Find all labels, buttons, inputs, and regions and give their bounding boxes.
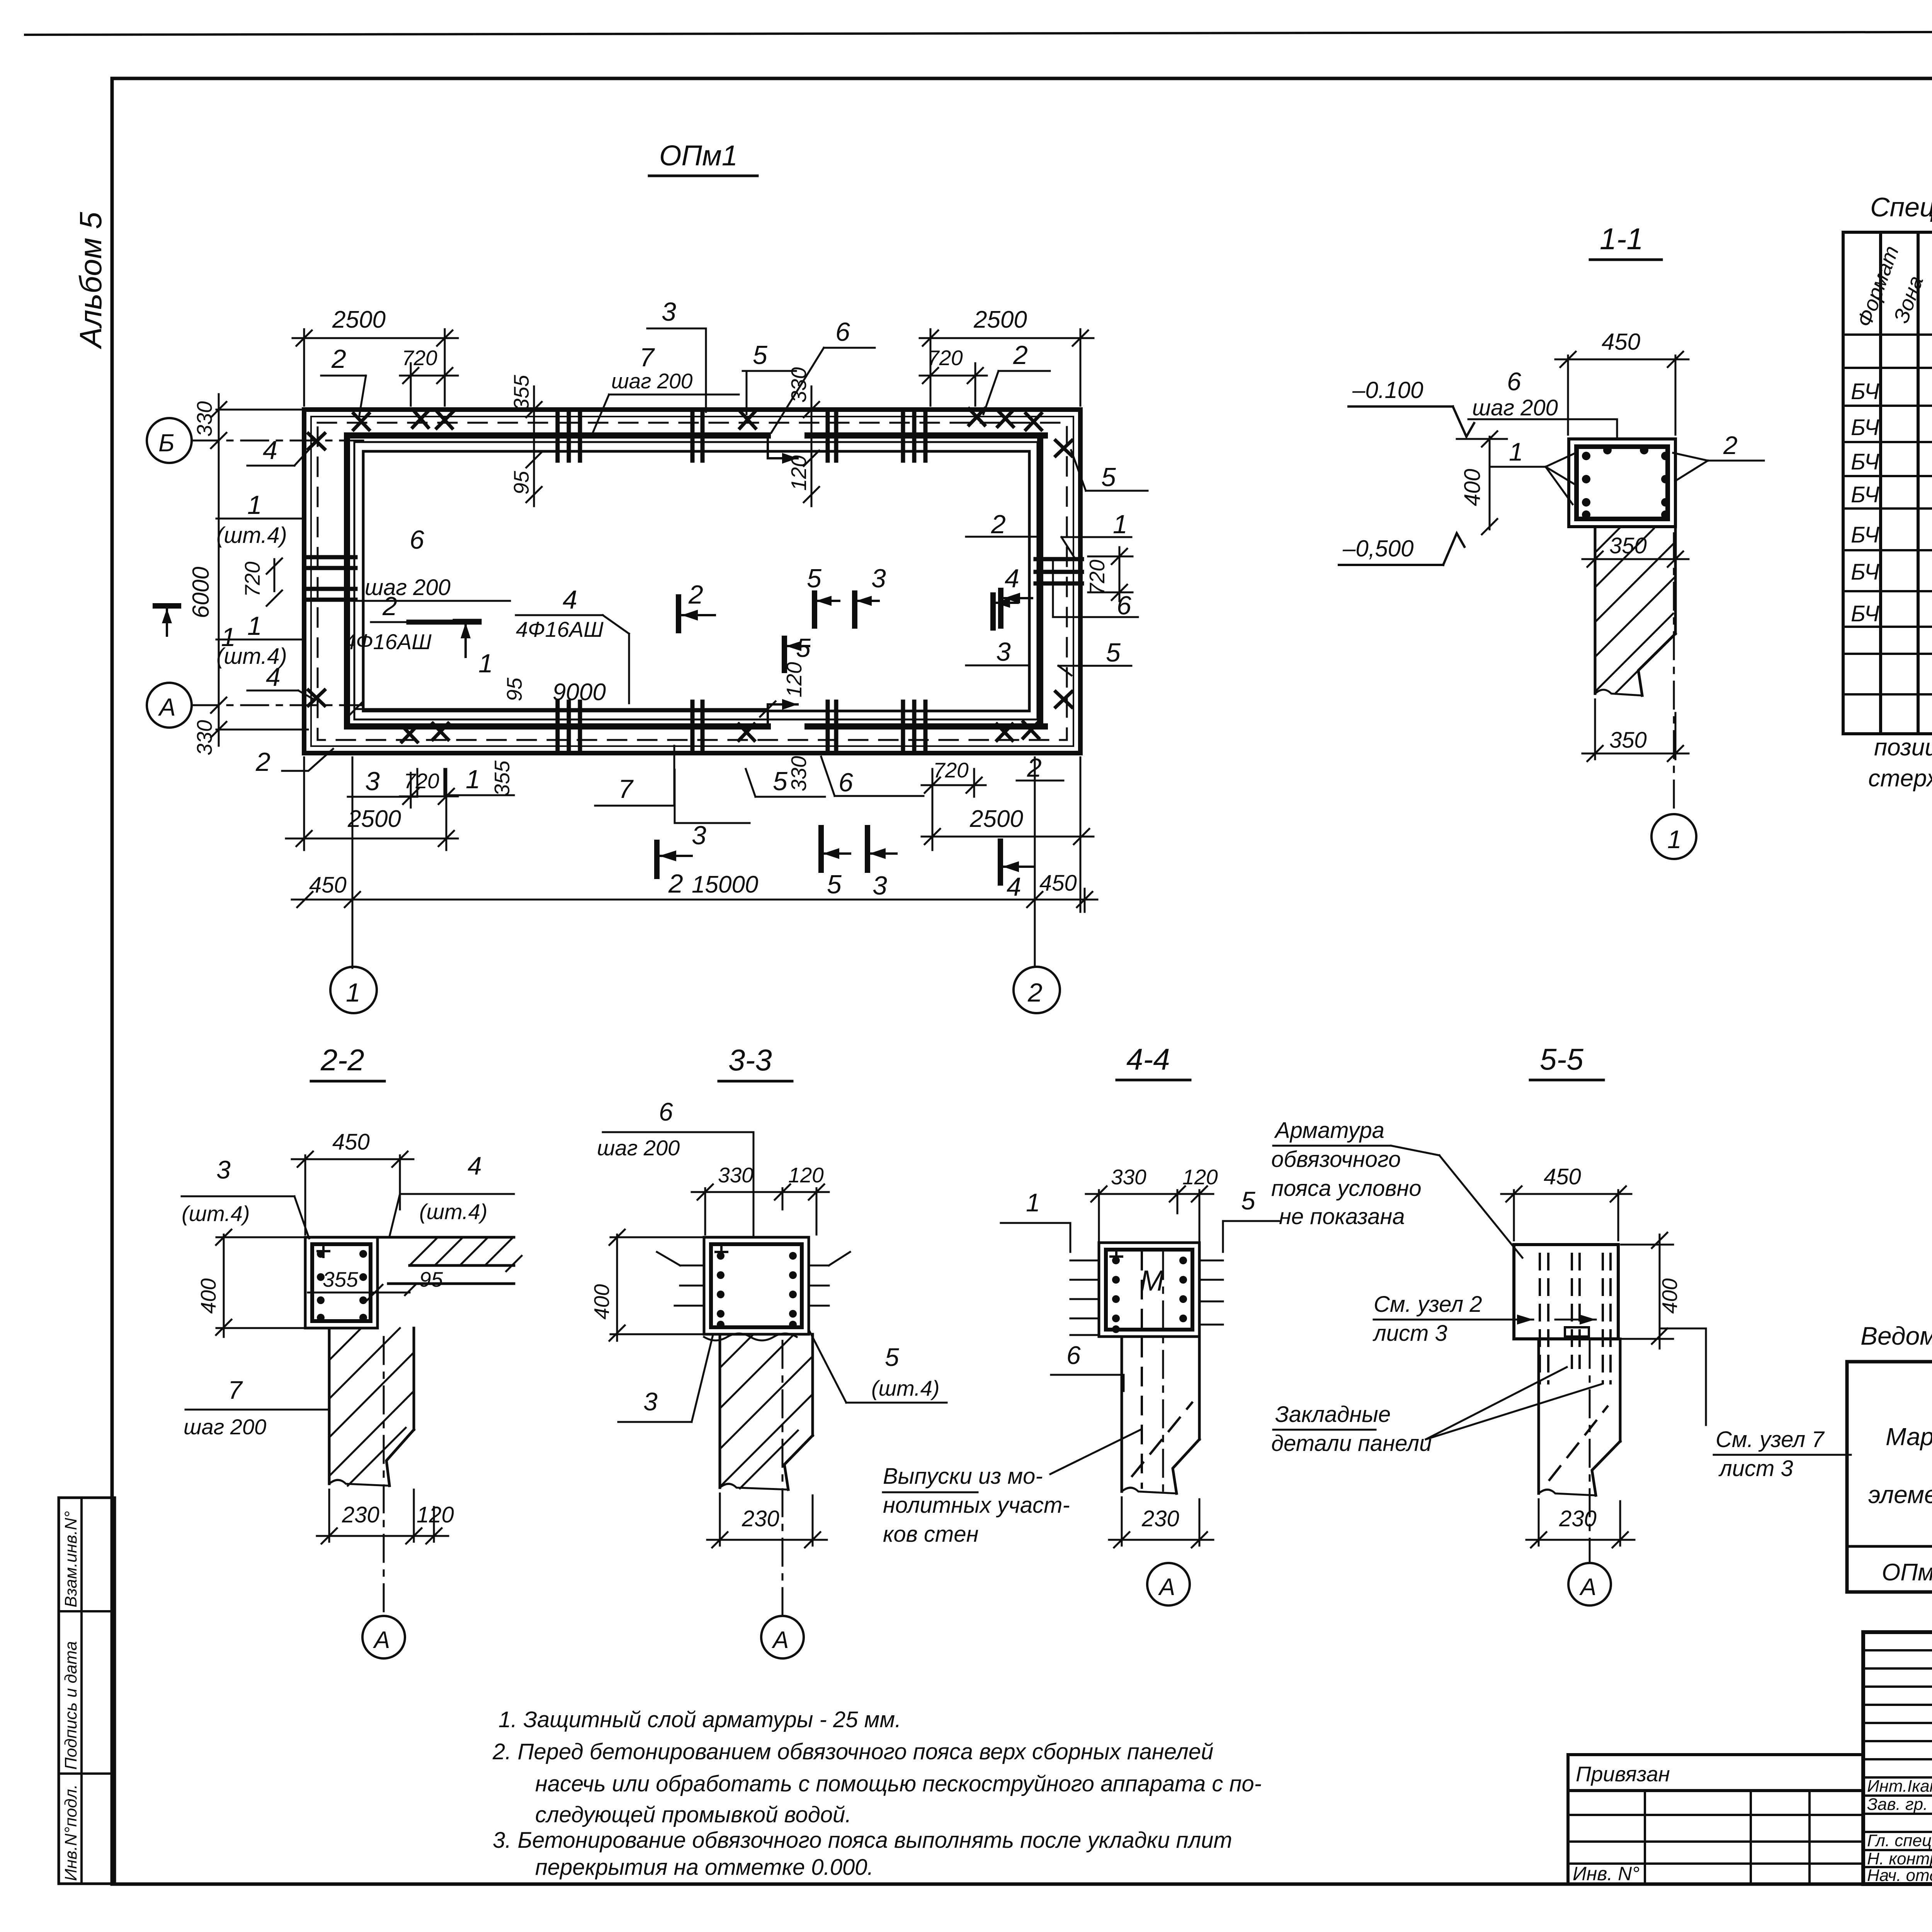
short bar symbol near label2 xyxy=(409,620,479,625)
svg-text:1: 1 xyxy=(466,765,480,794)
svg-text:ков стен: ков стен xyxy=(883,1522,979,1547)
svg-text:2: 2 xyxy=(688,580,703,609)
svg-text:Подпись и дата: Подпись и дата xyxy=(61,1641,80,1770)
svg-text:шаг 200: шаг 200 xyxy=(1472,395,1558,420)
svg-text:5-5: 5-5 xyxy=(1540,1042,1583,1076)
svg-text:(шт.4): (шт.4) xyxy=(871,1376,940,1400)
svg-text:–0,500: –0,500 xyxy=(1342,536,1414,561)
svg-text:6: 6 xyxy=(835,317,850,347)
svg-text:1: 1 xyxy=(221,622,236,652)
svg-text:не показана: не показана xyxy=(1279,1204,1405,1229)
svg-text:2500: 2500 xyxy=(332,306,386,333)
svg-text:–0.100: –0.100 xyxy=(1352,377,1423,403)
svg-text:330: 330 xyxy=(192,401,216,437)
spec rows xyxy=(1851,378,1932,626)
svg-text:7: 7 xyxy=(618,774,634,804)
bottom callouts below plan xyxy=(348,746,923,823)
svg-text:1: 1 xyxy=(346,978,361,1007)
ext lines top xyxy=(303,329,305,406)
axis A dashdot xyxy=(192,704,363,706)
svg-text:7: 7 xyxy=(639,343,655,372)
dim 230 xyxy=(707,1493,827,1548)
svg-text:2: 2 xyxy=(1013,340,1028,370)
svg-text:330: 330 xyxy=(787,756,811,791)
svg-text:95: 95 xyxy=(502,677,526,701)
dim 15000/450 line xyxy=(292,899,1097,901)
svg-text:элемента: элемента xyxy=(1868,1481,1932,1509)
svg-text:5: 5 xyxy=(885,1343,899,1371)
svg-text:3: 3 xyxy=(872,871,887,900)
svg-text:Взам.инв.N°: Взам.инв.N° xyxy=(61,1511,80,1607)
svg-text:следующей промывкой водой.: следующей промывкой водой. xyxy=(535,1802,851,1827)
svg-text:720: 720 xyxy=(1085,560,1109,595)
wall below 3-3 xyxy=(720,1334,813,1490)
svg-text:1: 1 xyxy=(247,611,262,641)
svg-text:Арматура: Арматура xyxy=(1274,1118,1384,1143)
dim 720 bottom-left xyxy=(400,796,458,798)
svg-text:120: 120 xyxy=(788,1163,824,1187)
dims 330 120 xyxy=(1086,1186,1213,1240)
label 6 shag 200 xyxy=(1468,419,1617,439)
slab right xyxy=(378,1237,514,1284)
dim 400 vertical right xyxy=(1621,1233,1673,1349)
section square 5-5 xyxy=(1514,1245,1618,1339)
svg-text:450: 450 xyxy=(309,872,347,898)
svg-text:350: 350 xyxy=(1609,728,1647,753)
stirrup ticks top band xyxy=(558,412,925,461)
section square 4-4 xyxy=(1099,1243,1199,1337)
svg-text:ОПм1: ОПм1 xyxy=(1882,1559,1932,1586)
svg-text:450: 450 xyxy=(1039,871,1077,896)
dim 2500 top-left xyxy=(293,337,458,339)
svg-text:Инт.Iкат: Инт.Iкат xyxy=(1867,1777,1932,1796)
svg-text:Нач. отд.: Нач. отд. xyxy=(1867,1866,1932,1885)
ring beam outer double line xyxy=(311,417,1073,746)
svg-text:450: 450 xyxy=(1544,1164,1581,1189)
svg-text:2: 2 xyxy=(331,344,346,374)
svg-text:330: 330 xyxy=(787,367,811,403)
ring beam outer edge xyxy=(304,410,1080,753)
axis to circle 1 xyxy=(1673,533,1675,813)
dim 720 top-left xyxy=(400,375,458,377)
svg-text:720: 720 xyxy=(933,758,969,782)
svg-text:15000: 15000 xyxy=(692,871,758,898)
beam inner edge second line xyxy=(363,451,1029,711)
stirrup ticks left band xyxy=(306,557,355,600)
svg-text:Зав. гр.: Зав. гр. xyxy=(1867,1795,1928,1814)
svg-text:2500: 2500 xyxy=(973,306,1027,333)
side leader lines xyxy=(657,1252,850,1306)
svg-text:5: 5 xyxy=(1101,463,1116,492)
svg-text:БЧ: БЧ xyxy=(1851,522,1879,548)
svg-text:См. узел 2: См. узел 2 xyxy=(1374,1292,1482,1317)
label 1 left xyxy=(1492,453,1576,504)
svg-text:Спецификация обвязочного п: Спецификация обвязочного пояса ОПм1 xyxy=(1870,192,1932,222)
svg-text:См. узел 7: См. узел 7 xyxy=(1716,1427,1825,1452)
rebar splice jog top xyxy=(768,435,798,458)
hatching xyxy=(1595,527,1675,694)
svg-text:пояса условно: пояса условно xyxy=(1271,1176,1422,1201)
svg-text:(шт.4): (шт.4) xyxy=(182,1201,250,1226)
rotated col headers xyxy=(1852,243,1932,330)
paper top edge xyxy=(25,31,1932,35)
stirrup ticks bottom band xyxy=(558,702,925,751)
dim 400 vertical xyxy=(216,1230,305,1337)
svg-text:400: 400 xyxy=(1658,1278,1682,1314)
svg-text:шаг 200: шаг 200 xyxy=(184,1415,266,1439)
svg-text:шаг 200: шаг 200 xyxy=(365,575,451,600)
svg-text:Гл. спец.: Гл. спец. xyxy=(1867,1831,1932,1850)
svg-text:4: 4 xyxy=(563,585,577,614)
svg-text:5: 5 xyxy=(753,340,767,370)
svg-text:450: 450 xyxy=(1602,329,1640,355)
svg-text:лист 3: лист 3 xyxy=(1718,1456,1793,1481)
dashed rebar contour xyxy=(318,423,1067,740)
dim 230 xyxy=(1109,1497,1213,1548)
svg-text:Выпуски из мо-: Выпуски из мо- xyxy=(883,1464,1043,1489)
svg-text:400: 400 xyxy=(196,1278,220,1314)
bar anchor X marks xyxy=(308,409,1072,742)
svg-text:5: 5 xyxy=(1106,638,1121,667)
svg-text:1: 1 xyxy=(478,649,493,678)
wall below 2-2 xyxy=(329,1328,414,1486)
svg-text:6: 6 xyxy=(1507,367,1521,396)
svg-text:ОПм1: ОПм1 xyxy=(659,139,738,172)
svg-text:Закладные: Закладные xyxy=(1275,1402,1391,1427)
axis B dashdot xyxy=(192,440,363,442)
heavy rebar chord right xyxy=(1037,435,1043,726)
note sm uzel 7 xyxy=(1662,1328,1706,1425)
dim 400 vertical xyxy=(1482,431,1497,534)
bar mark 2 with 4f16 xyxy=(344,525,606,706)
svg-text:3-3: 3-3 xyxy=(728,1043,772,1077)
svg-text:1: 1 xyxy=(1509,437,1523,466)
svg-text:230: 230 xyxy=(742,1506,779,1531)
signatures names xyxy=(1867,1777,1932,1885)
svg-text:БЧ: БЧ xyxy=(1851,379,1879,404)
heavy rebar chord top xyxy=(347,432,768,439)
svg-text:1: 1 xyxy=(1026,1188,1040,1217)
svg-text:нолитных участ-: нолитных участ- xyxy=(883,1493,1070,1518)
svg-text:720: 720 xyxy=(404,769,439,793)
svg-text:120: 120 xyxy=(782,662,806,697)
svg-text:А: А xyxy=(372,1627,390,1653)
svg-text:Привязан: Привязан xyxy=(1576,1762,1670,1786)
svg-text:4: 4 xyxy=(263,435,277,465)
svg-text:2: 2 xyxy=(1027,978,1043,1007)
svg-text:М: М xyxy=(1140,1264,1164,1297)
svg-text:обвязочного: обвязочного xyxy=(1271,1147,1401,1172)
svg-text:3: 3 xyxy=(643,1387,658,1416)
svg-text:3: 3 xyxy=(365,767,380,796)
svg-text:450: 450 xyxy=(332,1129,370,1155)
svg-text:3: 3 xyxy=(216,1155,231,1184)
svg-text:4: 4 xyxy=(1005,564,1019,593)
svg-text:6: 6 xyxy=(1117,591,1131,620)
heavy rebar chord bottom xyxy=(347,723,768,730)
svg-text:Марка: Марка xyxy=(1886,1423,1932,1451)
svg-text:перекрытия на отметке 0.000: перекрытия на отметке 0.000. xyxy=(535,1855,874,1880)
svg-text:2500: 2500 xyxy=(969,806,1023,832)
svg-text:2: 2 xyxy=(668,869,683,898)
dim 400 vertical xyxy=(609,1230,704,1341)
beam cross-section square xyxy=(1569,439,1675,527)
dim 720 top-right xyxy=(920,375,987,377)
wall below 4-4 xyxy=(1122,1337,1199,1493)
dim 450 xyxy=(1555,352,1689,435)
svg-text:3: 3 xyxy=(871,564,886,593)
svg-text:БЧ: БЧ xyxy=(1851,449,1879,474)
svg-text:А: А xyxy=(1579,1574,1596,1600)
bottom callout 2r underline xyxy=(1017,780,1063,782)
svg-text:4: 4 xyxy=(266,662,281,692)
svg-text:330: 330 xyxy=(1111,1165,1146,1189)
svg-text:Ведомость расхода стали на: Ведомость расхода стали на элемент, кг xyxy=(1861,1321,1932,1350)
svg-text:355: 355 xyxy=(490,760,514,796)
svg-text:А: А xyxy=(1158,1574,1175,1600)
dim 450 xyxy=(292,1151,413,1235)
axis circle A xyxy=(383,1337,385,1615)
embedded dashed bars xyxy=(1540,1254,1611,1383)
wall below 5-5 xyxy=(1539,1339,1620,1495)
svg-text:шаг 200: шаг 200 xyxy=(611,369,693,393)
svg-text:стержней на данном листе.: стержней на данном листе. xyxy=(1868,765,1932,792)
svg-text:5: 5 xyxy=(1241,1186,1255,1215)
dims 230 120 xyxy=(317,1490,448,1544)
dashed bars inside xyxy=(1141,1252,1143,1488)
dim 2500 bottom-left xyxy=(286,838,458,840)
svg-text:насечь или обработать с по: насечь или обработать с помощью пескостр… xyxy=(535,1771,1262,1796)
vertical mini dims near top band xyxy=(526,386,819,506)
rebar splice jog bottom xyxy=(768,704,798,726)
svg-text:(шт.4): (шт.4) xyxy=(216,523,287,548)
right side callouts xyxy=(966,450,1148,675)
svg-text:БЧ: БЧ xyxy=(1851,482,1879,507)
svg-text:95: 95 xyxy=(419,1267,443,1291)
svg-text:1-1: 1-1 xyxy=(1600,222,1643,256)
svg-text:720: 720 xyxy=(402,346,437,370)
svg-text:230: 230 xyxy=(342,1502,379,1527)
section mark 4 right inside xyxy=(1001,590,1032,626)
svg-text:720: 720 xyxy=(240,561,264,597)
spec table grid xyxy=(1843,232,1932,734)
svg-text:230: 230 xyxy=(1141,1506,1179,1531)
svg-text:4: 4 xyxy=(1007,872,1021,901)
svg-text:4Ф16АШ: 4Ф16АШ xyxy=(516,617,604,641)
svg-text:2. Перед бетонированием обв: 2. Перед бетонированием обвязочного пояс… xyxy=(492,1739,1213,1764)
svg-text:6000: 6000 xyxy=(188,567,214,618)
dim 355 inside xyxy=(308,1292,410,1294)
svg-text:120: 120 xyxy=(417,1502,454,1527)
svg-text:3: 3 xyxy=(996,637,1011,667)
svg-text:БЧ: БЧ xyxy=(1851,601,1879,626)
svg-text:БЧ: БЧ xyxy=(1851,415,1879,440)
svg-text:лист 3: лист 3 xyxy=(1372,1321,1447,1346)
bar leader lines xyxy=(1070,1260,1223,1335)
label 2 right xyxy=(1673,453,1764,481)
dim 2500 top-right xyxy=(920,337,1094,339)
svg-text:Б: Б xyxy=(158,429,175,457)
svg-text:5: 5 xyxy=(827,870,842,899)
svg-text:Н. контр: Н. контр xyxy=(1867,1849,1932,1868)
svg-text:1: 1 xyxy=(1667,825,1682,854)
axis circle A xyxy=(1147,1563,1190,1605)
svg-text:9000: 9000 xyxy=(553,679,606,706)
section arrow 1 inside plan xyxy=(455,621,493,678)
svg-text:А: А xyxy=(771,1627,789,1653)
svg-text:Инв.N°подл.: Инв.N°подл. xyxy=(61,1784,80,1881)
axis circle A xyxy=(1589,1341,1591,1563)
svg-text:720: 720 xyxy=(927,346,963,370)
svg-text:95: 95 xyxy=(509,471,533,495)
svg-text:400: 400 xyxy=(1460,469,1485,506)
svg-text:400: 400 xyxy=(590,1284,614,1320)
svg-text:БЧ: БЧ xyxy=(1851,560,1879,585)
section square 2-2 xyxy=(305,1237,378,1328)
svg-text:Инв. N°: Инв. N° xyxy=(1573,1863,1639,1884)
svg-text:2-2: 2-2 xyxy=(320,1043,364,1077)
left dim chain 6000/330 xyxy=(211,394,308,746)
svg-text:355: 355 xyxy=(323,1267,358,1291)
svg-text:1: 1 xyxy=(1113,510,1128,539)
stirrup ticks right band xyxy=(1036,559,1082,583)
left filing column block xyxy=(59,1498,115,1884)
top dimension chains xyxy=(293,329,1094,406)
svg-text:6: 6 xyxy=(410,525,424,554)
svg-text:(шт.4): (шт.4) xyxy=(419,1199,488,1224)
left row axes xyxy=(147,394,363,755)
svg-text:позиции отмеченные ∗ смотреть: позиции отмеченные ∗ смотреть ведомость xyxy=(1874,734,1932,761)
beam inner edge xyxy=(354,442,1037,719)
dim 350 upper xyxy=(1582,551,1689,567)
svg-text:3: 3 xyxy=(662,297,676,327)
bottom dimension chains xyxy=(286,757,1097,968)
svg-text:330: 330 xyxy=(718,1163,753,1187)
section cut marks inside plan xyxy=(679,593,993,670)
svg-text:1. Защитный слой арматуры - 2: 1. Защитный слой арматуры - 25 мм. xyxy=(498,1707,901,1732)
svg-text:6: 6 xyxy=(838,768,853,797)
svg-text:2: 2 xyxy=(991,510,1006,539)
dim 450 xyxy=(1501,1186,1631,1240)
svg-text:2: 2 xyxy=(1723,431,1738,459)
dims 330 120 xyxy=(692,1184,829,1235)
circle A xyxy=(147,683,192,728)
privyazan block xyxy=(1568,1755,1863,1884)
svg-text:3. Бетонирование обвязочного: 3. Бетонирование обвязочного пояса выпол… xyxy=(493,1828,1232,1853)
svg-text:Альбом 5: Альбом 5 xyxy=(73,212,108,349)
svg-text:5: 5 xyxy=(807,564,821,593)
heavy rebar chord left xyxy=(344,435,350,726)
svg-text:6: 6 xyxy=(659,1097,673,1126)
svg-text:А: А xyxy=(158,693,176,721)
left callouts xyxy=(216,444,333,771)
svg-text:шаг 200: шаг 200 xyxy=(597,1136,680,1160)
svg-text:350: 350 xyxy=(1609,533,1647,558)
svg-text:1: 1 xyxy=(247,490,262,520)
svg-text:детали панели: детали панели xyxy=(1271,1431,1432,1456)
svg-text:5: 5 xyxy=(796,633,811,663)
svg-text:330: 330 xyxy=(192,720,216,755)
section square 3-3 xyxy=(704,1237,809,1334)
svg-text:2500: 2500 xyxy=(347,806,401,832)
svg-text:120: 120 xyxy=(787,455,811,491)
inside plan callouts xyxy=(348,601,776,717)
svg-text:5: 5 xyxy=(773,767,787,796)
svg-text:6: 6 xyxy=(1066,1341,1081,1369)
svg-text:120: 120 xyxy=(1182,1165,1218,1189)
dim 230 xyxy=(1526,1499,1634,1548)
svg-text:4Ф16АШ: 4Ф16АШ xyxy=(344,629,432,654)
left signature grid xyxy=(1863,1632,1932,1884)
grid axis circles xyxy=(330,967,1060,1013)
svg-text:230: 230 xyxy=(1559,1506,1597,1531)
circle B xyxy=(147,418,192,463)
svg-text:Позиц.: Позиц. xyxy=(1929,259,1932,330)
top callout labels xyxy=(321,328,1050,435)
svg-text:Зона: Зона xyxy=(1889,272,1928,326)
svg-text:4-4: 4-4 xyxy=(1126,1042,1170,1076)
axis circle A xyxy=(782,1341,784,1615)
svg-text:2: 2 xyxy=(255,747,270,777)
svg-text:4: 4 xyxy=(468,1151,482,1180)
dim 720 bottom-right xyxy=(922,784,986,786)
section cut marks below plan xyxy=(657,828,1000,883)
dim 350 lower xyxy=(1582,699,1689,761)
svg-text:7: 7 xyxy=(228,1376,243,1404)
section mark 1 left xyxy=(155,606,236,652)
rebar dots xyxy=(1582,446,1670,519)
dim 2500 bottom-right xyxy=(922,836,1094,838)
svg-text:355: 355 xyxy=(509,375,533,410)
svg-text:3: 3 xyxy=(692,821,706,850)
wall below section 1-1 xyxy=(1595,527,1675,696)
